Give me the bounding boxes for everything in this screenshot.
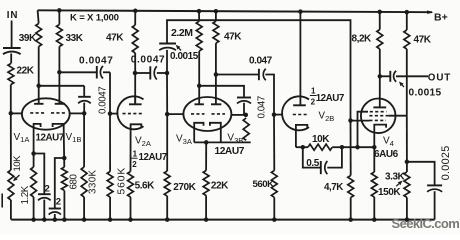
node screen bypass (405, 160, 410, 165)
capacitor 2uF (V1A cathode bypass) (38, 193, 51, 195)
node 47K at rail (133, 9, 138, 14)
wire rail to V2B plate (299, 12, 301, 106)
svg-text:1: 1 (133, 149, 138, 158)
wire 0.0015 to grid column (166, 50, 168, 73)
node V3A plate (197, 84, 202, 89)
resistor 39K (V1A plate load) (36, 24, 42, 47)
capacitor 0.0025 (screen bypass) (427, 184, 442, 186)
tube V4 6AU6 (pentode) (361, 99, 396, 134)
wire 4.7K to ground (350, 198, 352, 220)
node 330K ground (82, 217, 87, 222)
svg-text:6AU6: 6AU6 (374, 149, 399, 160)
resistor 2.2M (V3A plate load) (196, 21, 202, 51)
tube V1 12AU7 (dual triode) (22, 98, 70, 129)
wire feedback column to 4.7K (350, 121, 352, 176)
wire 0.5 loop left (303, 147, 321, 167)
node g3 tie (355, 145, 360, 150)
tube V3 12AU7 (dual triode) (183, 97, 231, 131)
wire cap B to ground (54, 214, 56, 220)
wire 150K to ground (373, 197, 375, 220)
node V2A plate (133, 71, 138, 76)
wire 47K2 to V3B plate (215, 43, 217, 104)
wire 560K V2B to ground (273, 197, 275, 219)
resistor 270K (V3A grid leak) (164, 171, 170, 196)
wire 10K to ground rail (10, 200, 12, 220)
wire 10K to right node (332, 146, 342, 148)
svg-text:12AU7: 12AU7 (36, 132, 65, 143)
resistor 33K (V1B plate load) (57, 25, 63, 47)
wire 2.2M to V3A plate (198, 51, 200, 104)
node 5.6K ground (128, 217, 133, 222)
svg-text:39K: 39K (19, 33, 37, 44)
svg-text:680: 680 (69, 174, 80, 190)
resistor 3.3K (screen bleeder) (404, 172, 410, 197)
resistor 47K (V4 screen) (404, 30, 410, 49)
wire cathode line to V4 (342, 146, 374, 148)
wire C-in to 22K (10, 54, 12, 64)
svg-text:12AU7: 12AU7 (316, 93, 345, 104)
capacitor 0.0047 (V2A to V3A) (149, 66, 151, 79)
wire V2A cathode down (130, 133, 132, 172)
wire 8.2K to V4 plate (379, 49, 381, 107)
wire cap H to V2B grid corner (265, 75, 274, 115)
svg-text:K = X 1,000: K = X 1,000 (70, 12, 119, 23)
node V1B grid (82, 111, 87, 116)
wire V3A grid down to 270K (166, 114, 168, 171)
wire cap to V1B grid node (83, 103, 85, 114)
node V1A plate (36, 84, 41, 89)
resistor 1.2K (V1A cathode) (31, 167, 37, 197)
wire V2A grid down to 560K (109, 114, 111, 172)
svg-text:47K: 47K (414, 34, 432, 45)
node 22K ground (204, 217, 209, 222)
wire 0.5 loop right (327, 147, 342, 167)
capacitor 0.0015 (output) (389, 71, 391, 82)
svg-text:IN: IN (7, 10, 18, 21)
wire plate node to out cap (380, 75, 391, 77)
node 47K2 at rail (214, 9, 219, 14)
wire V3B plate to cap H (216, 74, 259, 76)
node V4 plate (378, 74, 383, 79)
node feedback junction g1 (348, 118, 353, 123)
node 270K ground (165, 217, 170, 222)
node V2A grid (108, 111, 113, 116)
B+ supply rail (top) (38, 10, 432, 12)
wire 22K to grid node (10, 85, 12, 114)
node 3.3K ground (405, 217, 410, 222)
svg-text:B+: B+ (434, 12, 448, 24)
node V3A grid column top (165, 71, 170, 76)
wire 0.0025 to ground (434, 191, 436, 219)
capacitor 0.047 (V3A to V3B grid) (237, 97, 251, 99)
wire out cap to OUT (396, 75, 428, 77)
wire g1 line to V4 (351, 120, 370, 122)
svg-text:150K: 150K (378, 187, 401, 198)
svg-text:2: 2 (132, 160, 137, 169)
node 560K V2B ground (272, 217, 277, 222)
svg-text:0.0015: 0.0015 (170, 51, 199, 62)
wire 33K to V1B plate (58, 47, 60, 104)
capacitor 0.0047 (V1B to V2A) (96, 66, 98, 79)
resistor 10K (V2B cathode) (308, 144, 332, 150)
resistor 10K (input shunt) (8, 170, 14, 200)
resistor 560K (V2A grid leak) (107, 172, 113, 198)
node V2B plate at rail (298, 9, 303, 14)
wire corner down to cap (83, 86, 85, 97)
svg-text:5.6K: 5.6K (135, 181, 156, 192)
node 33K at rail (57, 8, 62, 13)
svg-text:47K: 47K (106, 32, 124, 43)
wire V3B grid to tube (232, 114, 246, 116)
wire rail to 2.2M (198, 11, 200, 21)
node V1B plate (57, 70, 62, 75)
node 10K right (340, 145, 345, 150)
svg-text:10K: 10K (312, 134, 330, 145)
node cap B ground (53, 217, 58, 222)
capacitor 0.047 (V3B to V2B) (258, 69, 260, 80)
node 560K ground (108, 217, 113, 222)
svg-text:0.047: 0.047 (249, 56, 273, 67)
svg-text:SeekIC.com: SeekIC.com (392, 216, 460, 231)
wire 3.3K to ground (406, 197, 408, 219)
svg-text:560K: 560K (253, 179, 275, 190)
svg-text:OUT: OUT (428, 72, 451, 83)
wire g2 to screen column (388, 115, 407, 117)
svg-text:270K: 270K (173, 182, 196, 193)
wire rail to 8.2K (379, 12, 381, 30)
resistor 150K (V4 cathode) (371, 172, 377, 197)
resistor 680 (V1B cathode) (62, 167, 68, 191)
resistor 22K (V3 cathode) (203, 171, 209, 196)
node 4.7K ground (348, 217, 353, 222)
capacitor 0.5 (cathode bypass) (320, 161, 322, 174)
node V1B cathode branch (62, 156, 67, 161)
wire cap to ground (43, 200, 45, 220)
node V3 cathode tap (204, 140, 209, 145)
svg-text:2.2M: 2.2M (171, 27, 193, 39)
wire feedback corner (167, 20, 351, 120)
node V3A grid (165, 112, 170, 117)
wire screen node to 3.3K (406, 162, 408, 172)
node 680 ground (62, 217, 67, 222)
node 8.2K at rail (377, 10, 382, 15)
svg-text:0.0047: 0.0047 (97, 87, 108, 114)
svg-text:3.3K: 3.3K (385, 171, 406, 182)
svg-text:47K: 47K (224, 32, 242, 43)
wire V3A grid to tube (167, 113, 184, 115)
svg-text:22K: 22K (211, 181, 229, 192)
wire V1B cathode down (63, 130, 66, 167)
node V3B grid (244, 113, 249, 118)
wire 560K to ground (109, 197, 111, 220)
wire cathode tap down (205, 142, 207, 170)
wire rail to 47K2 (215, 11, 217, 21)
wire 680 to ground (63, 191, 65, 220)
resistor 47K (V3B plate load) (213, 21, 219, 43)
wire rail to 47K3 (406, 12, 408, 30)
resistor 4.7K (to ground) (348, 176, 354, 198)
wire 47K to V2A plate (134, 53, 136, 104)
capacitor 0.0047 (V1A to V1B) (78, 96, 91, 98)
node cap ground (42, 217, 47, 222)
wire screen column down (406, 116, 408, 162)
wire branch to cap 2uF (34, 154, 45, 195)
arrow to 0.0015 (179, 48, 181, 50)
resistor 8.2K (V4 plate load) (377, 30, 383, 50)
resistor V3B grid (to cathode bar) (243, 118, 249, 140)
arrow to 3.3K resistor (396, 184, 399, 187)
wire V2B grid down to 560K (273, 115, 275, 171)
capacitor 2uF (V1B cathode bypass) (49, 208, 61, 210)
capacitor C-in (series input cap) (3, 47, 21, 49)
wire cathode to 10K (296, 146, 308, 148)
svg-text:0.047: 0.047 (256, 96, 267, 118)
wire V2B grid to tube (274, 114, 282, 116)
wire V1A plate to cap corner (39, 85, 84, 87)
svg-text:4,7K: 4,7K (324, 182, 343, 193)
svg-text:0.0047: 0.0047 (79, 55, 113, 66)
svg-text:0.0015: 0.0015 (409, 87, 442, 98)
wire V1B grid node down to 330K (83, 113, 85, 167)
node V4 cathode junction (372, 145, 377, 150)
wire corner down to V2A grid (109, 72, 111, 113)
resistor 330K (V1B grid leak) (81, 167, 87, 197)
resistor 22K (input divider) (8, 64, 14, 85)
arrow to out cap (402, 85, 404, 87)
node V2B cathode (301, 145, 306, 150)
resistor 47K (V2A plate load) (132, 25, 138, 53)
wire V4 cathode down (373, 133, 375, 172)
node input grid junction (9, 111, 14, 116)
svg-text:330K: 330K (88, 169, 99, 194)
svg-text:8,2K: 8,2K (352, 34, 373, 45)
wire cap to V3A grid column (157, 72, 167, 74)
resistor 560K (V2B grid leak) (271, 171, 277, 198)
wire plate node to cap (135, 72, 150, 74)
wire 22K to ground (205, 196, 207, 220)
wire 39K to V1A plate (38, 47, 40, 104)
ground rail (bottom) (11, 219, 435, 221)
svg-text:0.5: 0.5 (306, 158, 319, 169)
resistor 5.6K (V2A cathode) (128, 172, 134, 198)
svg-text:2: 2 (56, 196, 61, 207)
svg-text:22K: 22K (17, 66, 35, 77)
wire 5.6K to ground (130, 197, 132, 220)
svg-text:560K: 560K (117, 167, 128, 195)
scan edge mark (left) (1, 194, 3, 208)
wire IN down to C-in (11, 21, 13, 48)
svg-text:33K: 33K (66, 33, 84, 44)
wire screen node to 0.0025 (407, 162, 435, 186)
wire cap to corner (103, 71, 110, 73)
wire 1.2K to ground (33, 197, 35, 220)
arrow pointing to 10K (16, 175, 19, 178)
svg-text:2: 2 (45, 184, 50, 195)
node V3B plate (214, 72, 219, 77)
wire rail to 47K (134, 11, 136, 25)
wire 270K to ground (166, 196, 168, 220)
svg-text:12AU7: 12AU7 (139, 152, 168, 163)
svg-text:0.0047: 0.0047 (131, 55, 165, 66)
wire grid node down to 10K (10, 113, 12, 170)
svg-text:0.0025: 0.0025 (440, 145, 452, 180)
node 2.2M at rail (197, 9, 202, 14)
wire V2A grid node to tube (110, 113, 118, 115)
wire 330K to ground (83, 197, 85, 220)
node 47K3 at rail (405, 10, 410, 15)
wire cap V to V3B grid (243, 103, 245, 115)
wire rail to 33K (58, 10, 60, 24)
wire V1B grid node to tube (70, 112, 84, 114)
capacitor 0.0015 (feedback) (159, 43, 176, 45)
wire V1A cathode down (33, 130, 35, 167)
svg-text:12AU7: 12AU7 (215, 146, 245, 157)
tube V2A half 12AU7 (117, 96, 143, 129)
svg-text:10K: 10K (12, 155, 23, 172)
node V2B grid (272, 112, 277, 117)
wire V1B plate to cap (59, 71, 96, 73)
wire branch to cap 2uF B (55, 158, 65, 209)
wire V3A plate to cap V corner (199, 86, 244, 98)
wire grid node to V1A grid (11, 112, 22, 114)
wire 47K3 down to screen (406, 49, 408, 116)
node 150K ground (372, 217, 377, 222)
wire grid column down (166, 73, 168, 114)
node 1.2K ground (31, 217, 36, 222)
tube V2B half 12AU7 (282, 96, 309, 130)
node V1A cathode branch (31, 151, 36, 156)
svg-text:1.2K: 1.2K (20, 185, 31, 204)
wire rail corner to 39K (38, 10, 39, 23)
